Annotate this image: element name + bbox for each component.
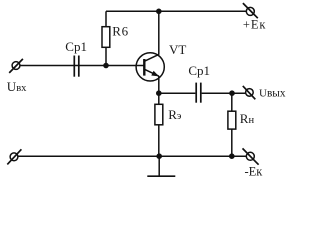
svg-text:Cp1: Cp1: [188, 63, 210, 78]
svg-text:R6: R6: [112, 23, 129, 38]
svg-text:Cp1: Cp1: [65, 39, 87, 54]
svg-text:-Ек: -Ек: [245, 165, 264, 179]
svg-text:+Ек: +Ек: [243, 18, 266, 32]
svg-text:Uвых: Uвых: [259, 88, 286, 100]
svg-text:VT: VT: [169, 42, 186, 57]
